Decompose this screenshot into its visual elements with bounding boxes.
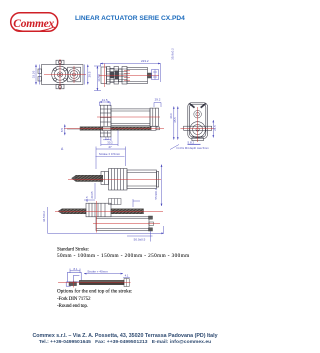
view C leadscrew rod — [67, 127, 151, 131]
svg-text:44.5±0.2: 44.5±0.2 — [42, 211, 46, 222]
view G threaded rod — [79, 280, 124, 284]
svg-text:41.5: 41.5 — [102, 98, 108, 102]
view F centerlines — [55, 201, 163, 233]
view B gear internals — [107, 69, 128, 82]
view A dimension right — [85, 65, 89, 85]
svg-text:-Round end top.: -Round end top. — [57, 303, 88, 309]
view D body — [188, 103, 208, 139]
view F rod right — [111, 209, 144, 214]
view E collar — [101, 172, 109, 185]
view C gear housing — [100, 105, 111, 137]
svg-text:Stroke + 40mm: Stroke + 40mm — [87, 269, 108, 273]
svg-text:33.26: 33.26 — [32, 70, 36, 78]
view A dimension left — [35, 65, 40, 85]
view F gear block — [86, 203, 111, 217]
view E gear block — [109, 169, 128, 191]
svg-text:N.4 fix M4 depth max 5mm: N.4 fix M4 depth max 5mm — [177, 146, 210, 150]
technical drawing — [0, 0, 250, 353]
view E top dimension — [96, 147, 126, 170]
view F rod left — [58, 209, 86, 214]
options text block — [57, 288, 132, 309]
view D dimension right — [212, 120, 214, 138]
view B end bracket — [152, 70, 159, 80]
svg-text:50mm - 100mm - 150mm - 200mm -: 50mm - 100mm - 150mm - 200mm - 250mm - 3… — [57, 253, 190, 259]
svg-text:8.1: 8.1 — [74, 267, 78, 271]
view C dimension top — [99, 101, 110, 106]
svg-text:35.9±0.2: 35.9±0.2 — [171, 48, 175, 60]
svg-text:5.8.2: 5.8.2 — [188, 140, 195, 144]
view A motor circles — [68, 67, 81, 82]
standard stroke text block — [57, 247, 190, 259]
footer address — [0, 333, 250, 347]
view F end flange — [149, 216, 154, 231]
svg-text:35.5: 35.5 — [173, 117, 177, 123]
view B gear red marks — [124, 71, 130, 80]
view C motor body — [111, 109, 150, 126]
view B dimension left — [94, 66, 101, 91]
svg-text:26.5: 26.5 — [88, 71, 92, 77]
view G end cap — [123, 277, 130, 286]
view B flange — [101, 67, 127, 85]
logo Commex — [8, 10, 62, 34]
view D dimensions left — [173, 106, 179, 139]
view B motor body — [127, 68, 148, 84]
view G fork pin — [69, 281, 77, 288]
view E annotation leader — [170, 144, 201, 149]
title — [75, 15, 250, 22]
svg-text:Stroke ± 0.5mm: Stroke ± 0.5mm — [99, 152, 121, 156]
svg-text:223.2: 223.2 — [141, 59, 149, 63]
svg-text:Standard Stroke:: Standard Stroke: — [57, 247, 89, 252]
view C centerlines — [64, 117, 164, 129]
view G centerline — [58, 281, 131, 283]
view E threaded rod — [76, 175, 103, 181]
view A body — [38, 60, 83, 89]
svg-text:30.5: 30.5 — [85, 196, 89, 202]
view G fork — [66, 272, 81, 286]
view C end cap — [150, 108, 159, 126]
svg-text:21.5: 21.5 — [213, 125, 217, 131]
view D wings — [184, 126, 212, 130]
view C screw end block — [151, 126, 160, 130]
view B centerlines — [99, 64, 159, 88]
view A gearbox circles — [52, 61, 69, 88]
view E motor body — [127, 170, 159, 189]
view F dimension bottom — [127, 231, 153, 242]
svg-text:50.0±0.5: 50.0±0.5 — [134, 238, 146, 242]
svg-text:14.50: 14.50 — [97, 74, 101, 82]
view C dimension top right — [154, 103, 161, 108]
view F motor body — [96, 217, 149, 231]
svg-text:47: 47 — [108, 145, 112, 149]
view E dimension right — [161, 165, 163, 207]
svg-text:Options for the end top of the: Options for the end top of the stroke: — [57, 288, 132, 295]
svg-text:30.2: 30.2 — [107, 141, 113, 145]
view E connector detail — [109, 199, 122, 205]
view B dimension top — [100, 63, 160, 82]
view D motor circle — [190, 122, 206, 141]
svg-text:8.5: 8.5 — [60, 128, 64, 133]
view C dimension left — [64, 124, 66, 135]
svg-text:55.9±0.3: 55.9±0.3 — [154, 188, 158, 199]
view E dimension below — [94, 183, 96, 199]
view D rod end circle — [194, 110, 202, 118]
view G fork dimension top — [70, 269, 80, 274]
svg-text:20.05: 20.05 — [90, 191, 94, 198]
view A centerlines — [44, 59, 86, 90]
view F dimension top — [84, 199, 140, 207]
view C leadscrew nut — [103, 126, 111, 130]
svg-text:A: A — [61, 147, 64, 151]
svg-text:-Fork DIN 71752: -Fork DIN 71752 — [57, 296, 91, 302]
svg-text:4.1: 4.1 — [125, 273, 129, 277]
view D centerlines — [181, 107, 215, 142]
view G stroke dimension — [84, 273, 123, 275]
view E rod tip — [72, 175, 77, 181]
view E centerline — [68, 179, 161, 181]
view F dimension left — [48, 207, 164, 234]
view C dimension bottom — [101, 130, 118, 146]
svg-text:29.2: 29.2 — [155, 98, 161, 102]
view B shaft stub — [148, 73, 152, 78]
